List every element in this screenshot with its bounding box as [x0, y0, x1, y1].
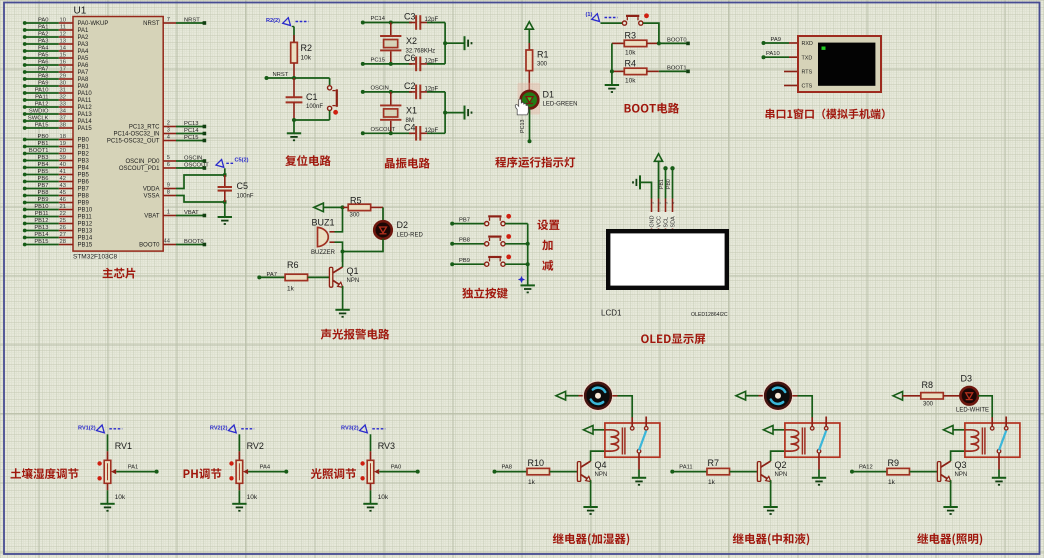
terminal PA11 — [670, 470, 674, 474]
wire RV2 bottom — [238, 483, 240, 490]
label 减 — [542, 260, 553, 271]
svg-text:3: 3 — [664, 202, 668, 204]
svg-text:44: 44 — [164, 239, 171, 245]
ground — [992, 478, 1006, 485]
wire buzzer top — [335, 207, 343, 231]
svg-text:1k: 1k — [708, 479, 716, 486]
svg-text:31: 31 — [60, 88, 66, 94]
ground — [521, 285, 535, 292]
svg-text:PB4: PB4 — [38, 162, 50, 168]
svg-text:PA11: PA11 — [679, 464, 692, 470]
wire PC14 — [363, 22, 412, 24]
pin PA10 (pin 31) — [23, 88, 93, 98]
terminal cursor — [822, 47, 826, 50]
svg-text:PB3: PB3 — [38, 155, 49, 161]
relay 继电器(加湿器) — [605, 417, 660, 470]
svg-text:1: 1 — [167, 210, 170, 216]
svg-text:PC14-OSC32_IN: PC14-OSC32_IN — [113, 132, 159, 138]
ground — [287, 133, 301, 140]
svg-text:PA12: PA12 — [78, 105, 93, 111]
push button 设置 — [485, 214, 512, 226]
svg-text:R1: R1 — [537, 50, 549, 60]
svg-text:PC13: PC13 — [520, 120, 526, 134]
wire C5 to ground — [224, 202, 226, 217]
wire NRST node — [267, 77, 330, 79]
ground OLED GND — [633, 175, 640, 189]
svg-text:300: 300 — [350, 213, 361, 219]
pin PB6 (pin 42) — [23, 176, 90, 186]
svg-text:17: 17 — [60, 67, 66, 73]
pin PC15-OSC32_OUT (pin 4) — [107, 135, 206, 145]
wire SCL pin — [665, 168, 667, 198]
wire collector link — [342, 252, 344, 268]
wire PA7 to R6 — [259, 276, 285, 278]
svg-text:38: 38 — [60, 123, 66, 129]
svg-text:PB5: PB5 — [78, 173, 90, 179]
label BOOT电路 — [625, 103, 680, 114]
svg-text:PA7: PA7 — [38, 67, 49, 73]
svg-text:30: 30 — [60, 81, 66, 87]
label 声光报警电路 — [321, 329, 390, 340]
resistor R3 — [612, 42, 624, 44]
svg-text:PA3: PA3 — [78, 42, 90, 48]
selection highlight — [518, 83, 541, 115]
power terminal coil — [763, 426, 773, 435]
terminal PA0 — [416, 470, 420, 474]
ground — [943, 507, 957, 514]
wire power to coil — [593, 429, 605, 431]
svg-text:16: 16 — [60, 60, 66, 66]
svg-text:PB10: PB10 — [78, 208, 93, 214]
label 复位电路 — [285, 155, 331, 166]
svg-text:C1: C1 — [306, 92, 318, 102]
wire BOOT1 — [659, 70, 687, 72]
pin PA9 (pin 30) — [23, 81, 89, 91]
wire R5 to D2 — [382, 207, 384, 221]
svg-text:18: 18 — [60, 134, 66, 140]
svg-text:VBAT: VBAT — [184, 210, 199, 216]
pin VSSA (pin 8) — [143, 190, 176, 200]
pin PB13 (pin 26) — [23, 225, 93, 235]
svg-text:R4: R4 — [625, 59, 637, 69]
transistor Q1 — [329, 267, 342, 288]
svg-text:32: 32 — [60, 95, 66, 101]
svg-text:PC14: PC14 — [371, 16, 386, 22]
LED D3 LED-WHITE — [960, 387, 978, 405]
terminal screen — [818, 43, 875, 86]
svg-text:LED-RED: LED-RED — [397, 233, 424, 239]
node junction BOOT0 — [657, 41, 661, 45]
probe label (1) — [592, 14, 618, 22]
svg-text:OSCOUT_PD1: OSCOUT_PD1 — [119, 166, 160, 172]
svg-text:LED-WHITE: LED-WHITE — [956, 408, 989, 414]
capacitor C4 — [409, 132, 416, 134]
svg-text:PB0: PB0 — [38, 134, 49, 140]
svg-text:RV2(2): RV2(2) — [210, 425, 228, 431]
svg-text:Q3: Q3 — [955, 460, 967, 470]
wire collector — [342, 252, 344, 263]
svg-text:26: 26 — [60, 225, 66, 231]
label 土壤湿度调节 — [11, 468, 79, 479]
wire left rail — [611, 43, 613, 85]
svg-text:PA6: PA6 — [38, 60, 49, 66]
power terminal — [525, 22, 533, 30]
pin OSCIN_PD0 (pin 5) — [125, 155, 206, 165]
node junction R4 — [610, 69, 614, 73]
svg-text:PA6: PA6 — [78, 63, 90, 69]
svg-text:100nF: 100nF — [306, 104, 323, 110]
svg-text:LCD1: LCD1 — [601, 309, 622, 318]
svg-text:NPN: NPN — [955, 472, 968, 478]
relay 继电器(中和液) — [785, 417, 840, 470]
svg-text:PB11: PB11 — [78, 215, 93, 221]
svg-text:D2: D2 — [397, 220, 409, 230]
probe label RV3(2) — [360, 425, 386, 433]
wire button to BOOT0 node — [643, 23, 659, 43]
label 继电器(加湿器) — [553, 533, 629, 545]
svg-text:SWCLK: SWCLK — [28, 116, 49, 122]
LCD1 OLED display — [608, 231, 727, 288]
label 晶振电路 — [385, 158, 430, 169]
wire power to R8 — [903, 395, 921, 397]
svg-text:5: 5 — [167, 155, 170, 161]
svg-text:PA12: PA12 — [35, 102, 49, 108]
wire D1 to terminal PC13 — [529, 109, 531, 142]
capacitor C5 — [224, 175, 226, 187]
svg-text:PB9: PB9 — [38, 197, 49, 203]
resistor R1 — [528, 43, 530, 50]
svg-text:NPN: NPN — [347, 278, 360, 284]
svg-text:PA14: PA14 — [78, 119, 93, 125]
svg-text:SDA: SDA — [671, 216, 677, 227]
capacitor C2 — [409, 91, 416, 93]
label 设置 — [537, 219, 559, 230]
pin PA11 (pin 32) — [23, 95, 92, 105]
svg-text:X1: X1 — [406, 105, 417, 115]
terminal SDA PB0 — [670, 166, 674, 170]
pin SWDIO (pin 34) — [23, 109, 93, 119]
node junction R5 — [341, 205, 345, 209]
capacitor C6 — [409, 63, 416, 65]
svg-text:12pF: 12pF — [425, 17, 439, 23]
node junction — [389, 21, 393, 25]
svg-text:11: 11 — [60, 25, 66, 31]
pin PA7 (pin 17) — [23, 67, 89, 77]
svg-text:R7: R7 — [708, 458, 720, 468]
svg-text:OLED12864I2C: OLED12864I2C — [691, 312, 728, 318]
svg-text:PA15: PA15 — [78, 126, 93, 132]
svg-text:PB0: PB0 — [666, 179, 672, 189]
potentiometer RV1 — [104, 460, 111, 483]
svg-text:PA5: PA5 — [38, 53, 49, 59]
capacitor C1 — [293, 78, 295, 97]
crystal X1 — [390, 92, 392, 105]
svg-text:1k: 1k — [287, 286, 295, 293]
pin PA3 (pin 13) — [23, 39, 89, 49]
probe label RV2(2) — [228, 425, 254, 433]
ground — [335, 310, 349, 317]
svg-text:PA3: PA3 — [38, 39, 49, 45]
svg-text:Q2: Q2 — [775, 460, 787, 470]
svg-text:U1: U1 — [74, 6, 87, 17]
push button 加 — [485, 234, 512, 246]
wire relay common to ground — [818, 470, 820, 478]
wire emitter to ground — [342, 286, 344, 310]
wire to ground — [445, 42, 464, 44]
svg-text:PA10: PA10 — [78, 91, 93, 97]
push button 减 — [485, 255, 512, 267]
wire PA12 to R9 — [852, 471, 887, 473]
wire R6 to Q1 — [308, 276, 330, 278]
svg-text:43: 43 — [60, 183, 66, 189]
pin PA5 (pin 15) — [23, 53, 89, 63]
pin PB5 (pin 41) — [23, 169, 90, 179]
wire PB7 to button — [452, 223, 484, 225]
ground — [465, 106, 472, 120]
buzzer BUZ1 — [318, 227, 329, 246]
svg-text:PA0-WKUP: PA0-WKUP — [78, 21, 109, 27]
svg-text:Q4: Q4 — [595, 460, 607, 470]
label 继电器(照明) — [917, 533, 982, 545]
pin PB9 (pin 46) — [23, 197, 90, 207]
terminal SCL PB1 — [663, 166, 667, 170]
node junction C1/gnd — [292, 118, 296, 122]
wire power to coil — [773, 429, 785, 431]
svg-text:15: 15 — [60, 53, 66, 59]
svg-text:BUZZER: BUZZER — [311, 250, 336, 256]
pin PA6 (pin 16) — [23, 60, 89, 70]
marker origin — [518, 276, 525, 283]
svg-text:PB7: PB7 — [78, 187, 90, 193]
svg-text:PA11: PA11 — [78, 98, 92, 104]
svg-text:(1): (1) — [586, 12, 593, 18]
svg-text:BOOT1: BOOT1 — [667, 66, 687, 72]
label 光照调节 — [311, 468, 356, 479]
svg-text:PB5: PB5 — [38, 169, 49, 175]
svg-text:NRST: NRST — [273, 72, 289, 78]
power terminal — [314, 203, 324, 212]
svg-text:25: 25 — [60, 218, 66, 224]
svg-text:PB13: PB13 — [34, 225, 48, 231]
pin VDDA (pin 9) — [143, 183, 176, 193]
pin PB4 (pin 40) — [23, 162, 90, 172]
svg-text:27: 27 — [60, 232, 66, 238]
potentiometer RV3 — [367, 460, 374, 483]
wire wiper PA4 — [248, 471, 286, 473]
svg-text:PB14: PB14 — [34, 232, 49, 238]
wire SDA pin — [672, 168, 674, 198]
svg-text:1k: 1k — [888, 479, 896, 486]
motor fan humidifier — [583, 381, 612, 410]
node junction — [389, 131, 393, 135]
crystal X2 — [390, 23, 392, 36]
wire PA11 to R7 — [672, 471, 707, 473]
svg-text:PA1: PA1 — [78, 28, 90, 34]
wire RV1 bottom — [107, 483, 109, 490]
node junction key2 — [526, 242, 530, 246]
svg-text:PB12: PB12 — [34, 218, 48, 224]
svg-text:12: 12 — [60, 32, 66, 38]
svg-text:PB4: PB4 — [78, 166, 90, 172]
svg-text:42: 42 — [60, 176, 66, 182]
resistor R8 — [921, 393, 944, 399]
svg-text:NRST: NRST — [184, 18, 200, 24]
terminal PC14 — [361, 21, 365, 25]
svg-text:PA11: PA11 — [35, 95, 48, 101]
svg-text:8: 8 — [167, 190, 170, 196]
svg-text:VCC: VCC — [657, 216, 663, 227]
svg-text:PA2: PA2 — [38, 32, 49, 38]
svg-text:10: 10 — [60, 18, 66, 24]
node C5 top junction — [223, 173, 226, 176]
wire emitter to ground — [950, 480, 952, 507]
wire wiper PA0 — [379, 471, 418, 473]
svg-text:PB0: PB0 — [78, 138, 90, 144]
svg-text:PA8: PA8 — [78, 77, 90, 83]
svg-text:PA2: PA2 — [78, 35, 90, 41]
power terminal VCC — [654, 154, 662, 162]
wire relay common to ground — [638, 470, 640, 478]
svg-text:R2(2): R2(2) — [266, 18, 280, 24]
svg-text:9: 9 — [167, 183, 170, 189]
ground — [763, 507, 777, 514]
svg-text:BOOT0: BOOT0 — [139, 243, 160, 249]
svg-text:3: 3 — [167, 128, 170, 134]
svg-text:PB2: PB2 — [78, 152, 90, 158]
terminal NRST — [265, 76, 269, 80]
wire RV1 top — [107, 434, 109, 451]
wire power to coil — [953, 429, 965, 431]
svg-text:NPN: NPN — [775, 472, 788, 478]
svg-text:PB15: PB15 — [78, 243, 93, 249]
svg-text:BOOT0: BOOT0 — [184, 239, 204, 245]
transistor Q3 — [937, 461, 950, 482]
svg-text:PB13: PB13 — [78, 229, 93, 235]
wire OSCIN — [363, 91, 412, 93]
svg-text:PA13: PA13 — [78, 112, 93, 118]
pin CTS stub — [784, 85, 798, 87]
wire relay common to ground — [998, 470, 1000, 478]
svg-text:PB6: PB6 — [38, 176, 49, 182]
svg-text:28: 28 — [60, 239, 66, 245]
svg-text:PC13: PC13 — [184, 121, 199, 127]
svg-text:10k: 10k — [301, 55, 312, 62]
svg-text:10k: 10k — [115, 494, 126, 501]
pin PA2 (pin 12) — [23, 32, 89, 42]
power terminal coil — [943, 426, 953, 435]
svg-text:PC13_RTC: PC13_RTC — [129, 125, 160, 131]
svg-text:PA15: PA15 — [35, 123, 49, 129]
terminal PA4 — [284, 470, 288, 474]
node junction collector — [341, 250, 345, 254]
svg-text:PB7: PB7 — [38, 183, 49, 189]
svg-text:10k: 10k — [247, 494, 258, 501]
pin NRST (pin 7) — [143, 17, 206, 27]
node junction rail — [443, 111, 447, 115]
pin PA4 (pin 14) — [23, 46, 89, 56]
svg-text:41: 41 — [60, 169, 66, 175]
wire button to rail — [505, 263, 528, 265]
wire RV2 top — [238, 434, 240, 451]
push button reset — [328, 86, 339, 115]
svg-text:RTS: RTS — [802, 70, 813, 76]
svg-text:PB14: PB14 — [78, 236, 93, 242]
svg-text:PA10: PA10 — [35, 88, 49, 94]
svg-text:39: 39 — [60, 155, 66, 161]
wire motor to relay NC — [792, 395, 797, 397]
OLED pin stubs — [651, 199, 653, 230]
node junction — [389, 90, 393, 94]
svg-text:PA0: PA0 — [38, 18, 49, 24]
resistor R2 — [291, 42, 298, 63]
svg-text:PA1: PA1 — [38, 25, 49, 31]
svg-text:C2: C2 — [404, 81, 416, 91]
chip U1 body — [73, 17, 163, 252]
svg-text:37: 37 — [60, 116, 66, 122]
svg-text:PB9: PB9 — [459, 258, 470, 264]
terminal PA10 — [762, 55, 766, 59]
svg-text:OSCIN: OSCIN — [371, 86, 389, 92]
terminal PA12 — [850, 470, 854, 474]
pin PB12 (pin 25) — [23, 218, 93, 228]
pin PA1 (pin 11) — [23, 25, 89, 35]
svg-text:2: 2 — [657, 202, 661, 204]
svg-text:NPN: NPN — [595, 472, 608, 478]
ground — [232, 504, 246, 511]
svg-text:29: 29 — [60, 74, 66, 80]
pin PB0 (pin 18) — [23, 134, 90, 144]
svg-text:PA4: PA4 — [38, 46, 49, 52]
motor fan neutralizer — [763, 381, 792, 410]
wire BOOT0 — [659, 42, 687, 44]
wire D3 to relay NC — [978, 396, 992, 417]
svg-text:PB15: PB15 — [34, 239, 48, 245]
resistor R4 — [612, 70, 624, 72]
svg-text:Q1: Q1 — [347, 266, 359, 276]
relay 继电器(照明) — [965, 417, 1020, 470]
terminal PB8 — [450, 242, 454, 246]
svg-text:100nF: 100nF — [237, 194, 254, 200]
LED D1 LED-GREEN — [521, 91, 539, 109]
svg-text:PC15: PC15 — [371, 58, 386, 64]
svg-text:CTS: CTS — [802, 84, 813, 90]
push button BOOT — [622, 13, 648, 25]
svg-text:C5(2): C5(2) — [235, 158, 249, 164]
terminal OSCOUT — [361, 131, 365, 135]
svg-text:C4: C4 — [404, 122, 416, 132]
svg-text:45: 45 — [60, 190, 66, 196]
pin PB7 (pin 43) — [23, 183, 90, 193]
terminal — [528, 139, 532, 143]
node junction R2/C1 — [292, 76, 296, 80]
svg-text:D3: D3 — [961, 374, 973, 384]
wire power to R1 — [528, 30, 530, 50]
pin PA15 (pin 38) — [23, 123, 93, 133]
svg-text:PA12: PA12 — [859, 464, 873, 470]
svg-text:PA1: PA1 — [128, 465, 139, 471]
pin PA12 (pin 33) — [23, 102, 93, 112]
wire R8 to D3 — [943, 395, 960, 397]
svg-text:RV1: RV1 — [115, 441, 132, 451]
power terminal motor — [556, 391, 566, 400]
pin PB8 (pin 45) — [23, 190, 90, 200]
svg-text:BUZ1: BUZ1 — [312, 218, 335, 228]
wire R2 bottom — [293, 63, 295, 78]
node junction key3 — [526, 262, 530, 266]
ground — [812, 478, 826, 485]
pin OSCOUT_PD1 (pin 6) — [119, 162, 209, 172]
svg-text:22: 22 — [60, 211, 66, 217]
